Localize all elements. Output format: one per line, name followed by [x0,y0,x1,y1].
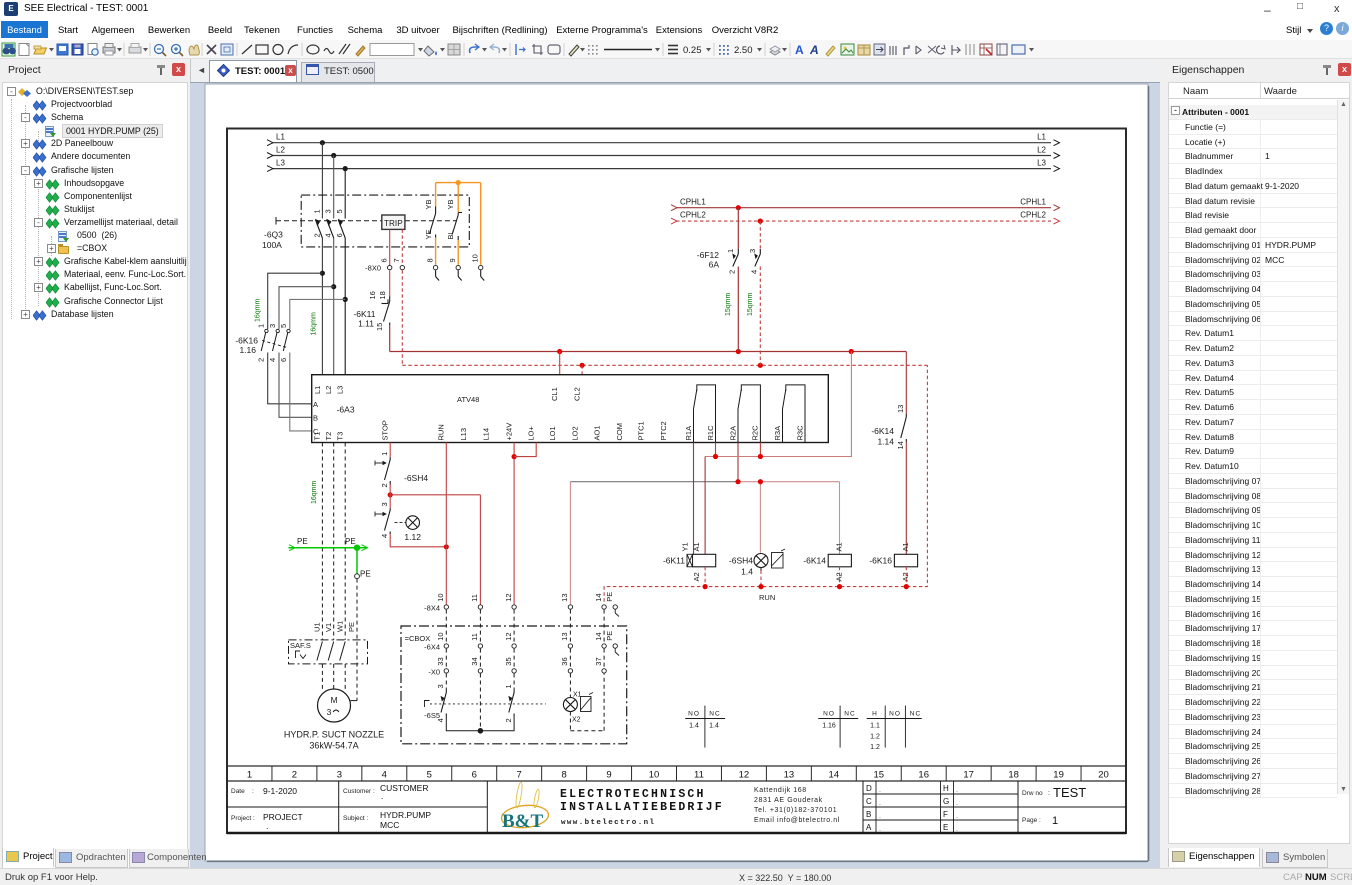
svg-text:10: 10 [436,632,445,640]
svg-text:-6X4: -6X4 [424,642,440,651]
svg-text:11: 11 [470,633,479,641]
svg-text:1.2: 1.2 [870,744,880,751]
wire K14 to coil K16 [905,442,907,555]
drive side pins A B C [313,400,319,436]
svg-text:NC: NC [709,710,720,717]
svg-text:PROJECT: PROJECT [263,812,303,822]
svg-text:PE: PE [345,537,356,546]
svg-text:1.4: 1.4 [741,567,753,577]
relay coil -6K16 [869,542,917,581]
svg-text:.: . [956,826,958,833]
breaker pole contact 5/6 [335,209,345,238]
svg-text:1.16: 1.16 [822,723,836,730]
svg-text:+24V: +24V [504,423,513,441]
node R1C junction [713,454,718,459]
aux contact YB/BL [446,199,462,240]
wire RUN drop [445,443,447,605]
terminal strip -8X0 [365,263,381,272]
node R2C junction [758,454,763,459]
svg-text:16: 16 [368,291,377,299]
node supply branch junction [849,349,854,354]
svg-text:Tel. +31(0)182-370101: Tel. +31(0)182-370101 [754,807,837,814]
svg-text:1.4: 1.4 [689,723,699,730]
wire terminal 6 to contact K11 [389,270,391,296]
svg-text:2: 2 [312,233,321,237]
control rail CPHL2 (dashed) [671,211,1060,224]
terminal -X0:33 [436,657,448,673]
svg-text:www.btelectro.nl: www.btelectro.nl [561,819,655,827]
wire R2A stub [737,443,739,482]
wire K16 phase 3 [290,299,345,431]
node STOP junction [388,492,393,497]
breaker pole contact 3/4 [324,209,334,238]
aux contact YB/YE [424,199,436,239]
svg-text:3: 3 [380,502,389,506]
svg-text:12: 12 [504,632,513,640]
svg-text:CL2: CL2 [573,387,582,401]
node CL2 junction [580,363,585,368]
wire stop link [390,485,480,605]
contact -6K14 1.14 (13/14) [871,405,906,450]
svg-text:9: 9 [606,770,611,781]
svg-text:SAF.S: SAF.S [290,641,311,650]
svg-text:CPHL1: CPHL1 [680,197,706,206]
wire +24V drop [513,443,515,605]
node +24V junction [511,454,516,459]
svg-text:1.16: 1.16 [239,345,256,355]
svg-text:A: A [809,43,819,57]
svg-text:L2: L2 [276,145,285,154]
svg-text:CUSTOMER: CUSTOMER [380,783,429,793]
svg-text:X2: X2 [572,717,581,724]
svg-text:15: 15 [375,323,384,331]
svg-text:3: 3 [324,209,333,213]
terminal -X0:34 [470,657,482,673]
wire -6X4 to -X0 dashed [446,649,604,669]
relay coil -6K14 [803,542,851,581]
svg-text:Email info@btelectro.nl: Email info@btelectro.nl [754,817,840,824]
node S5 loop junction [478,728,484,734]
svg-text:F: F [943,810,948,819]
svg-text:PTC1: PTC1 [637,421,646,440]
svg-text:35: 35 [504,657,513,665]
wire L2 phase drop [333,156,335,375]
fuse-switch -6F12 6A pole 1/2 [697,249,739,274]
wire TRIP to terminal 6 [389,229,391,265]
svg-text:STOP: STOP [381,420,390,440]
terminal -8X0:8 [425,258,437,269]
svg-text:A2: A2 [901,572,910,581]
svg-text:7: 7 [517,770,522,781]
terminal -8X0:9 [448,258,460,269]
crossref table -6K11 NO/NC [685,706,725,748]
wire S5 bottom loop [446,717,514,731]
wire motor phases dashed U1 V1 W1 [313,443,346,640]
svg-text:7: 7 [392,258,401,262]
svg-text:-6K11: -6K11 [353,309,375,319]
svg-text:2: 2 [292,770,297,781]
wire fuse 2 down [737,267,739,352]
wire CPHL1 to fuse [737,208,739,249]
svg-text:C: C [866,797,872,806]
terminal -8X4:11 [470,594,482,609]
terminal -8X4:13 [560,593,572,609]
wire R1A to coil Y1 [693,443,695,555]
svg-text:PE: PE [347,622,356,632]
svg-text:9: 9 [448,258,457,262]
svg-text:2: 2 [504,718,513,722]
svg-text:V1: V1 [324,623,333,632]
terminal -6X4:12 [504,632,516,648]
svg-text:12: 12 [739,770,750,781]
contact -6K11 1.11 (15/16/18) [353,291,389,331]
svg-text:-6K16: -6K16 [235,336,258,346]
node CPHL1 junction [736,205,741,210]
svg-text:PE: PE [605,592,614,602]
svg-text:RUN: RUN [759,593,775,602]
node F12-4 junction [758,363,763,368]
svg-text:L2: L2 [324,386,333,394]
svg-text:R2A: R2A [728,426,737,441]
svg-text:Kattendijk 168: Kattendijk 168 [754,787,807,794]
drive top pins CL1 CL2 [550,387,581,401]
svg-text:-6K14: -6K14 [871,426,894,436]
terminal -6X4:13 [560,632,572,648]
svg-text:.: . [956,813,958,820]
svg-text:5: 5 [427,770,432,781]
svg-text:CPHL2: CPHL2 [680,211,706,220]
svg-text:.: . [381,791,383,801]
svg-text:R1C: R1C [706,425,715,441]
wire R2C stub [759,443,761,457]
svg-text:HYDR.PUMP: HYDR.PUMP [380,810,431,820]
svg-text:T2: T2 [324,432,333,441]
svg-text:13: 13 [560,593,569,601]
crossref table -6K14 NO/NC [818,706,858,748]
safety switch blades [296,642,346,661]
wire lamp to -X0 37 [570,674,604,731]
svg-text:36: 36 [560,657,569,665]
wire R1C stub [715,443,717,457]
svg-text::: : [1048,790,1050,797]
terminal -X0:35 [504,657,516,673]
svg-text:14: 14 [896,441,905,449]
terminal -6X4:PE [605,631,619,656]
svg-text:L1: L1 [313,386,322,394]
wire label 15qmm 1 [725,292,732,316]
svg-text:-6A3: -6A3 [337,405,355,415]
svg-text:6: 6 [472,770,477,781]
control rail CPHL1 [671,197,1060,210]
wire -X0 34 drop [479,674,481,731]
svg-text:11: 11 [694,770,704,781]
terminal -8X4:PE [605,592,619,617]
svg-text:6: 6 [380,258,389,262]
terminal -8X0:6 [380,258,392,269]
svg-text:NC: NC [910,710,921,717]
svg-text:13: 13 [896,405,905,413]
svg-text:Y1: Y1 [680,542,689,551]
svg-text:-8X0: -8X0 [365,263,381,272]
svg-text:1.2: 1.2 [870,734,880,741]
svg-text:L3: L3 [276,158,285,167]
svg-text:G: G [943,797,949,806]
motor M1 3~ (HYDR.P. SUCT NOZZLE) [284,689,384,751]
svg-text:A1: A1 [692,542,701,551]
svg-text:L1: L1 [276,133,285,142]
node A2 K11 [703,584,708,589]
svg-text:34: 34 [470,657,479,665]
svg-text:12: 12 [504,593,513,601]
svg-text:RUN: RUN [437,424,446,440]
node L1 tap junction [320,140,325,145]
wire -8X4 to CBOX dashed [446,610,604,644]
svg-text:Subject :: Subject : [343,815,368,822]
svg-text:1: 1 [504,684,513,688]
node L3 tap junction [343,166,348,171]
svg-text:COM: COM [615,423,624,441]
svg-text:T3: T3 [336,432,345,441]
svg-text:A1: A1 [901,542,910,551]
wire +24V to LO+ [514,443,536,457]
svg-text:.: . [879,813,881,820]
svg-text:Page :: Page : [1022,817,1041,824]
svg-text:W1: W1 [336,621,345,632]
wire -X0 33 to S5 [445,674,447,691]
wire CPHL2 to fuse dashed [759,221,761,249]
node CL1 junction [557,349,562,354]
svg-text:8: 8 [561,770,566,781]
svg-text:TEST: TEST [1053,785,1086,800]
svg-text:16qmm: 16qmm [255,298,262,322]
wire CL1 tap [559,352,561,375]
svg-text:TRIP: TRIP [384,219,403,228]
svg-text:HYDR.P. SUCT NOZZLE: HYDR.P. SUCT NOZZLE [284,730,384,740]
svg-text:9-1-2020: 9-1-2020 [263,786,297,796]
svg-text:13: 13 [560,632,569,640]
svg-text:14: 14 [594,632,603,640]
svg-text:Project :: Project : [231,815,255,822]
svg-text:33: 33 [436,657,445,665]
svg-text:-X0: -X0 [428,667,440,676]
enclosure =CBOX [401,626,627,744]
ground PE distribution (green) [289,537,371,579]
svg-text:CL1: CL1 [550,387,559,401]
svg-text:B&T: B&T [502,811,544,832]
terminal -8X4:14 [594,593,606,609]
terminal strip -8X4 [424,603,440,612]
svg-text:1.12: 1.12 [404,532,421,542]
svg-text:M: M [330,695,337,705]
svg-text:-6SH4: -6SH4 [729,556,753,566]
wire -X0 36 to lamp [569,674,571,698]
node A2 lamp [758,584,763,589]
svg-text:R1A: R1A [684,426,693,441]
svg-text:18: 18 [1008,770,1019,781]
drive top pins L1 L2 L3 [313,386,345,394]
node L2 tap junction [331,153,336,158]
svg-text:L1: L1 [1037,133,1046,142]
wire K16 phase 2 [279,287,334,418]
svg-text:PE: PE [360,570,371,579]
drive internal relay contact R1 [694,385,716,443]
net label RUN [759,593,775,602]
svg-text:4: 4 [750,270,759,274]
svg-text:14: 14 [594,593,603,601]
wire control line CPHL1 branch (red) [390,325,907,352]
svg-text:D: D [866,784,872,793]
terminal stubs -8X0 8,9,10 [436,270,485,280]
svg-text:3: 3 [337,770,342,781]
svg-text:1: 1 [726,249,735,253]
drive bottom pin labels [313,420,805,440]
svg-text:YB: YB [446,199,455,209]
svg-text:1.14: 1.14 [877,437,894,447]
terminal -X0:36 [560,657,572,673]
node orange junction [456,180,461,185]
svg-text:L3: L3 [1037,158,1046,167]
TRIP release box [382,215,405,229]
svg-text:.: . [879,787,881,794]
svg-text:13: 13 [784,770,795,781]
svg-text::: : [252,788,254,795]
wire CL2 tap dashed [581,365,583,374]
wire terminal 13 feed [570,482,738,605]
svg-text:.: . [879,800,881,807]
svg-text:19: 19 [1053,770,1064,781]
terminal -8X4:10 [436,593,448,609]
svg-text:B: B [866,810,871,819]
svg-text:LO2: LO2 [570,426,579,440]
terminal PE [355,574,360,579]
svg-text:6A: 6A [709,260,720,270]
node CPHL2 junction [758,219,763,224]
svg-text:2831 AE Gouderak: 2831 AE Gouderak [754,797,823,804]
terminal -6X4:10 [436,632,448,648]
svg-text:10: 10 [436,593,445,601]
terminal -8X4:12 [504,593,516,609]
power rail L2 [267,145,1060,158]
terminal strip -X0 [428,667,440,676]
svg-text:.: . [879,826,881,833]
crossref table -6K16 H/NO/NC [867,706,922,751]
wire L1 phase drop [321,143,323,375]
wire -X0 35 to S5 [513,674,515,691]
wire coil supply row [705,352,851,555]
svg-text:2: 2 [380,483,389,487]
svg-text:0.25: 0.25 [683,45,702,56]
svg-text:H: H [872,710,878,717]
node lamp branch junction [758,479,763,484]
wire STOP drop [389,443,391,458]
node A2 K14 [837,584,842,589]
terminal -X0:37 [594,657,606,673]
svg-text:CPHL1: CPHL1 [1020,197,1046,206]
svg-text:INSTALLATIEBEDRIJF: INSTALLATIEBEDRIJF [560,801,724,814]
svg-text:R3A: R3A [773,426,782,441]
svg-text:100A: 100A [262,240,282,250]
svg-text:18: 18 [378,291,387,299]
svg-text:1: 1 [380,452,389,456]
svg-text:R2C: R2C [751,425,760,441]
svg-text:NO: NO [889,710,901,717]
svg-text:15qmm: 15qmm [747,292,754,316]
svg-text:A: A [866,823,872,832]
svg-text:1: 1 [247,770,252,781]
svg-text:Date: Date [231,788,245,795]
emergency stop -6SH4 contact 1/2 [375,452,428,488]
wire PE to motor dashed [347,579,357,701]
svg-text:15: 15 [873,770,884,781]
svg-text:6: 6 [279,358,288,362]
svg-text:ELECTROTECHNISCH: ELECTROTECHNISCH [560,788,706,801]
svg-text:Customer :: Customer : [343,788,375,795]
wire label 16qmm (motor feed) [311,480,318,504]
svg-text:.: . [956,787,958,794]
indicator lamp X1/X2 [563,692,593,724]
svg-text:ATV48: ATV48 [457,395,479,404]
svg-text:YE: YE [424,229,433,239]
svg-text:CPHL2: CPHL2 [1020,211,1046,220]
svg-text:YB: YB [424,199,433,209]
svg-text:MCC: MCC [380,820,399,830]
svg-text:3: 3 [327,707,332,717]
node L1 branch to K16 [320,271,325,276]
svg-text:3: 3 [748,249,757,253]
svg-text:-6K14: -6K14 [803,556,826,566]
svg-text:1.4: 1.4 [709,723,719,730]
svg-text:L3: L3 [336,386,345,394]
svg-text:5: 5 [279,324,288,328]
svg-text:NO: NO [823,710,835,717]
svg-text:6: 6 [335,233,344,237]
wire A2 return rail (dashed) [604,365,927,602]
safety switch SAF.S enclosure [289,640,368,664]
wire supply to contact K14 [905,352,907,415]
svg-text:PTC2: PTC2 [659,421,668,440]
svg-text:R3C: R3C [795,425,804,441]
drive internal relay contact R3 [783,385,806,443]
terminal -8X0:7 [392,258,404,269]
svg-text:1.11: 1.11 [358,319,374,329]
svg-text:B: B [313,414,318,423]
terminal -6X4:14 [594,632,606,648]
emergency stop -6SH4 contact 3/4 with lamp 1.12 [375,502,421,542]
node R2A junction [735,479,740,484]
svg-text:36kW-54.7A: 36kW-54.7A [309,741,358,751]
svg-text:1: 1 [1052,815,1058,827]
svg-text:U1: U1 [313,622,322,632]
svg-text:H: H [943,784,949,793]
pilot lamp -6SH4 1.4 [729,549,785,577]
svg-text:8: 8 [425,258,434,262]
svg-text:NO: NO [688,710,700,717]
svg-text:A: A [795,43,804,57]
svg-text:2: 2 [257,358,266,362]
svg-text:E: E [943,823,948,832]
svg-text:NC: NC [844,710,855,717]
svg-text:2.50: 2.50 [734,45,753,56]
wire run indication row [738,482,840,555]
switch -6S5 contact 3/4 [424,684,446,722]
svg-text:PE: PE [297,537,308,546]
svg-text:16qmm: 16qmm [311,480,318,504]
circuit breaker Q3 enclosure (-6Q3 100A) [262,195,469,250]
svg-text:1: 1 [257,324,266,328]
wire orange aux bottom [436,238,459,265]
svg-text:A: A [313,400,318,409]
svg-text:16: 16 [918,770,929,781]
